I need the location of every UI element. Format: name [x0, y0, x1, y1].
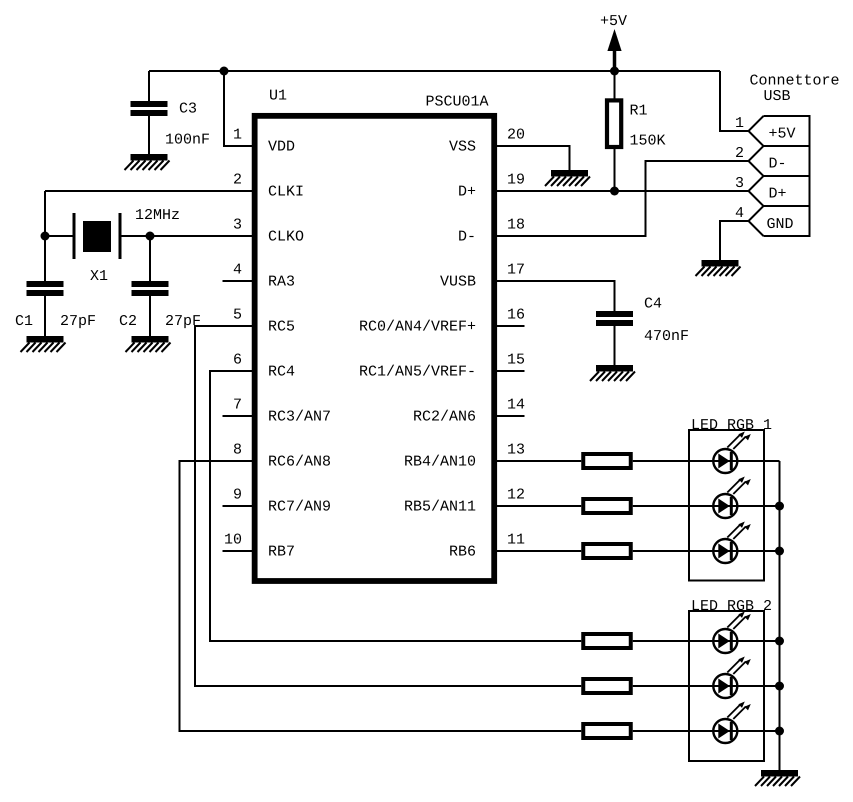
connector USB outline [749, 116, 810, 236]
resistor series row5 [583, 679, 631, 693]
svg-text:8: 8 [233, 442, 242, 459]
node junction dot bus row2 [775, 502, 784, 511]
power symbol +5V arrow [607, 29, 621, 51]
resistor series row6 [583, 724, 631, 738]
svg-text:17: 17 [507, 262, 525, 279]
svg-text:C1: C1 [15, 313, 33, 330]
svg-text:C4: C4 [644, 296, 662, 313]
ground bottom bus [755, 770, 800, 786]
svg-text:RC0/AN4/VREF+: RC0/AN4/VREF+ [359, 319, 476, 336]
svg-text:4: 4 [233, 262, 242, 279]
svg-text:VUSB: VUSB [440, 274, 476, 291]
wire VSS pin20 to ground [497, 146, 570, 170]
node junction dot +5V/R1 [610, 67, 619, 76]
svg-text:1: 1 [233, 127, 242, 144]
wire +5V arrow stem [613, 49, 617, 71]
svg-text:4: 4 [735, 205, 744, 222]
node junction dot bus row5 [775, 682, 784, 691]
svg-text:RC3/AN7: RC3/AN7 [268, 409, 331, 426]
node junction dot R1/D+ [610, 187, 619, 196]
resistor series row2 [583, 499, 631, 513]
svg-text:6: 6 [233, 352, 242, 369]
resistor series row1 [583, 454, 631, 468]
svg-text:27pF: 27pF [60, 313, 96, 330]
wire pin11 to resistor [497, 550, 581, 552]
svg-text:RB5/AN11: RB5/AN11 [404, 499, 476, 516]
capacitor C4 [596, 311, 633, 326]
wire pin12 to resistor [497, 505, 581, 507]
resistor series row4 [583, 634, 631, 648]
svg-text:C2: C2 [119, 313, 137, 330]
node junction dot bus row6 [775, 727, 784, 736]
svg-text:CLKI: CLKI [268, 184, 304, 201]
svg-text:LED RGB 2: LED RGB 2 [691, 598, 772, 615]
ground VSS [545, 170, 590, 186]
wire RC5 pin5 route to LED RGB 2 row2 [195, 326, 581, 686]
wire USB GND to ground [720, 221, 749, 260]
pin 4 stub RA3 [223, 280, 253, 282]
svg-text:11: 11 [507, 532, 525, 549]
LED D5 [713, 657, 751, 699]
svg-text:RA3: RA3 [268, 274, 295, 291]
LED D6 [713, 702, 751, 744]
wire RC6 pin8 route to LED RGB 2 row3 [180, 461, 582, 731]
svg-text:10: 10 [224, 532, 242, 549]
wire +5V top rail [149, 70, 720, 72]
svg-text:D-: D- [769, 156, 787, 173]
svg-text:RC7/AN9: RC7/AN9 [268, 499, 331, 516]
svg-text:VDD: VDD [268, 139, 295, 156]
svg-text:D+: D+ [458, 184, 476, 201]
pin 16 stub [497, 325, 525, 327]
LED D2 [713, 477, 751, 519]
svg-text:CLKO: CLKO [268, 229, 304, 246]
svg-text:5: 5 [233, 307, 242, 324]
svg-text:Connettore: Connettore [750, 73, 840, 90]
svg-text:13: 13 [507, 442, 525, 459]
svg-text:1: 1 [735, 115, 744, 132]
svg-text:PSCU01A: PSCU01A [426, 94, 489, 111]
ground under C2 [126, 336, 171, 352]
wire pin2 branch down to C1 [44, 191, 46, 281]
svg-text:D-: D- [458, 229, 476, 246]
svg-text:3: 3 [735, 175, 744, 192]
svg-text:100nF: 100nF [165, 132, 210, 149]
svg-text:LED RGB 1: LED RGB 1 [691, 417, 772, 434]
wire row3 resistor to bus [633, 550, 780, 552]
svg-text:20: 20 [507, 127, 525, 144]
svg-text:18: 18 [507, 217, 525, 234]
svg-text:D+: D+ [769, 186, 787, 203]
svg-text:RB6: RB6 [449, 544, 476, 561]
wire row2 resistor to bus [633, 505, 780, 507]
wire CLKI pin2 [45, 190, 252, 192]
svg-text:14: 14 [507, 397, 525, 414]
pin 15 stub [497, 370, 525, 372]
wire row4 resistor to bus [633, 640, 780, 642]
pin 9 stub RC7/AN9 [223, 505, 253, 507]
svg-text:3: 3 [233, 217, 242, 234]
svg-text:2: 2 [735, 145, 744, 162]
capacitor C2 [132, 281, 169, 296]
svg-text:16: 16 [507, 307, 525, 324]
svg-text:150K: 150K [630, 132, 666, 149]
wire row5 resistor to bus [633, 685, 780, 687]
svg-text:+5V: +5V [600, 13, 627, 30]
pin 10 stub RB7 [223, 550, 253, 552]
svg-text:15: 15 [507, 352, 525, 369]
svg-text:RC4: RC4 [268, 364, 295, 381]
wire VUSB pin17 to C4 [497, 281, 615, 311]
svg-text:RC1/AN5/VREF-: RC1/AN5/VREF- [359, 364, 476, 381]
svg-text:U1: U1 [269, 88, 287, 105]
node junction dot C3/VDD [220, 67, 229, 76]
wire +5V rail to USB pin1 [720, 71, 749, 131]
wire VDD pin1 [224, 71, 252, 146]
svg-text:VSS: VSS [449, 139, 476, 156]
node junction dot bus row3 [775, 547, 784, 556]
svg-text:12: 12 [507, 487, 525, 504]
wire D+ pin19 to USB pin3 [497, 190, 749, 192]
ground under C3 [125, 154, 170, 170]
pin 14 stub [497, 415, 525, 417]
wire X1 right lead to CLKO pin3 [120, 235, 252, 237]
svg-text:2: 2 [233, 172, 242, 189]
capacitor C3 [148, 71, 150, 101]
svg-text:USB: USB [764, 88, 791, 105]
svg-text:RC2/AN6: RC2/AN6 [413, 409, 476, 426]
ground under C1 [21, 336, 66, 352]
wire row6 resistor to bus [633, 730, 780, 732]
svg-text:RC5: RC5 [268, 319, 295, 336]
svg-text:+5V: +5V [769, 126, 796, 143]
wire X1 left lead [45, 235, 74, 237]
node junction dot bus row4 [775, 637, 784, 646]
ground under C4 [590, 365, 635, 381]
wire D- pin18 to USB pin2 [497, 161, 749, 236]
wire C2 branch down [149, 236, 151, 281]
svg-text:9: 9 [233, 487, 242, 504]
LED D4 [713, 612, 751, 654]
node junction dot X1/C2 [146, 232, 155, 241]
svg-text:RB7: RB7 [268, 544, 295, 561]
svg-text:GND: GND [767, 216, 794, 233]
svg-text:19: 19 [507, 172, 525, 189]
svg-text:12MHz: 12MHz [135, 207, 180, 224]
svg-text:7: 7 [233, 397, 242, 414]
svg-text:C3: C3 [179, 101, 197, 118]
capacitor C1 [27, 281, 64, 296]
svg-text:X1: X1 [90, 268, 108, 285]
svg-text:RC6/AN8: RC6/AN8 [268, 454, 331, 471]
svg-text:RB4/AN10: RB4/AN10 [404, 454, 476, 471]
LED D3 [713, 522, 751, 564]
node junction dot X1/C1 [41, 232, 50, 241]
wire cathode ground bus [779, 461, 781, 770]
wire row1 resistor to bus [633, 460, 780, 462]
resistor R1 pullup [614, 71, 616, 99]
ground USB [696, 260, 741, 276]
svg-text:R1: R1 [630, 102, 648, 119]
op chip U1 body [255, 116, 495, 581]
box LED RGB 2 [689, 611, 764, 761]
resistor series row3 [583, 544, 631, 558]
box LED RGB 1 [689, 430, 764, 581]
wire pin13 to resistor [497, 460, 581, 462]
svg-text:470nF: 470nF [644, 328, 689, 345]
pin 7 stub RC3/AN7 [223, 415, 253, 417]
crystal X1 [74, 213, 120, 259]
LED D1 [713, 432, 751, 474]
wire RC4 pin6 route to LED RGB 2 row1 [210, 371, 581, 641]
